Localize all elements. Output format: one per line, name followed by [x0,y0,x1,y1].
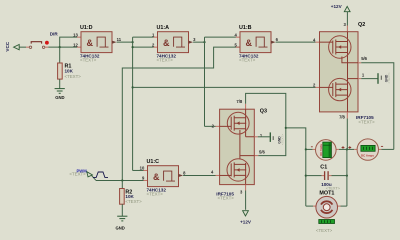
wire to Q3 pin2 [205,125,216,127]
transistor Q3 (IRF7105 dual MOSFET) [211,108,267,200]
wire U1:D out vertical bus [132,37,134,170]
wire U1:A out vertical [204,37,206,126]
svg-text:11: 11 [117,37,122,42]
wire R vertical [346,149,348,206]
ground GND (R1) [55,89,65,101]
wire line A to Q2 pin2 [133,86,316,88]
bottom MOSFET circle [227,159,249,181]
svg-text:+12V: +12V [240,220,252,225]
wire R to motor [338,205,341,207]
internal verticals [246,109,255,137]
wire L to motor [306,205,313,207]
wire voltmeter to node R [336,148,339,150]
capacitor C1 [320,164,340,190]
svg-text:&: & [246,38,253,48]
svg-text:<TEXT>: <TEXT> [125,199,142,204]
node junction R [346,148,348,150]
svg-text:<TEXT>: <TEXT> [157,58,174,63]
wire R1 to ground [59,79,61,88]
svg-text:Q3: Q3 [260,108,267,114]
node +12V terminal (top) [331,4,350,12]
svg-text:&: & [153,172,160,182]
wire Q2 pin1 to terminal [358,78,361,80]
wire to R2 [121,180,123,188]
wire to U1:A pin2 [133,46,154,48]
svg-text:<TEXT>: <TEXT> [280,134,284,145]
node junction C1 left [305,175,307,177]
node junction C1 right [346,175,348,177]
svg-text:7/8: 7/8 [339,114,345,119]
wire to U1:B pin4 [205,36,236,38]
wire C1 left [306,175,322,177]
svg-text:&: & [87,38,94,48]
node junction pin2 [132,46,134,48]
svg-text:<TEXT>: <TEXT> [387,72,391,83]
svg-text:DC Amps: DC Amps [361,153,374,157]
wire U1:A out [193,41,204,43]
svg-text:<TEXT>: <TEXT> [69,172,86,177]
wire L vertical [305,149,307,206]
resistor R2 [120,189,143,205]
op-amp U1:C (NAND 74HC132) [140,159,186,197]
wire Q3 pin1 to terminal [254,136,257,138]
capacitor terminal at Q2 pin1 [378,72,391,84]
top source to 5/6 [342,57,358,63]
wire Q2 7/8 down to node R [346,112,348,119]
svg-text:7/8: 7/8 [236,99,242,104]
wire PWM bus to U1:B pin5 [122,47,240,180]
wire to U1:C pin10 [133,169,144,171]
node VCC terminal [5,41,19,51]
wire Q2 5/6 to right bus [358,62,361,64]
wire node L to voltmeter [306,148,313,150]
switch DIR [29,31,58,48]
svg-text:U1:D: U1:D [80,25,93,31]
svg-text:<TEXT>: <TEXT> [316,228,333,233]
svg-text:12: 12 [73,42,78,47]
node junction R2 [121,179,123,181]
svg-text:<TEXT>: <TEXT> [239,58,256,63]
wire Q3 7/8 riser to motor node [245,104,247,109]
wire C1 right [329,175,332,177]
node junction switch/R1 [59,46,61,48]
svg-text:U1:C: U1:C [147,159,160,165]
pin1 branch [348,78,359,80]
ammeter instrument [348,139,383,160]
svg-text:MOT1: MOT1 [319,191,334,197]
wire branch to node L [286,128,306,149]
svg-text:<TEXT>: <TEXT> [218,196,235,201]
wire R2 to ground [121,204,123,216]
svg-text:DC Volts: DC Volts [319,144,323,156]
wire node R to ammeter [347,148,354,150]
svg-text:10K: 10K [65,68,74,73]
node junction Q3 riser branch [285,127,287,129]
svg-text:<TEXT>: <TEXT> [147,192,164,197]
wire +12V to Q2 pin3 [346,12,348,26]
voltmeter instrument [311,140,345,161]
svg-text:<TEXT>: <TEXT> [80,58,97,63]
svg-text:10: 10 [140,166,145,171]
node PWM input terminal [69,169,108,181]
svg-text:5/6: 5/6 [259,150,265,155]
wire to U1:A pin1 [133,36,154,38]
wire ammeter to right bus [378,148,381,150]
svg-text:DIR: DIR [50,31,59,36]
svg-text:GND: GND [116,225,125,230]
internal vertical [347,32,349,112]
op-amp U1:D (NAND 74HC132) [73,25,122,63]
svg-text:U1:B: U1:B [239,25,252,31]
wire PWM to U1:C pin9 [96,179,144,181]
wire U1:C out to Q3 pin4 [183,174,215,176]
svg-text:U1:A: U1:A [157,25,170,31]
svg-text:VCC: VCC [5,41,10,51]
node junction line A [132,86,134,88]
wire to R1 [59,47,61,63]
node junction L [305,148,307,150]
transistor Q2 (IRF7105 dual MOSFET) [313,22,375,125]
wire Q3 pin3 to +12V [245,185,247,191]
top MOSFET circle [329,36,351,58]
wire U1:D out [117,41,133,43]
node U1:A out junction [203,41,205,43]
top MOSFET circle [227,112,249,134]
svg-text:13: 13 [73,32,78,37]
resistor R1 [58,63,82,79]
svg-text:GND: GND [55,95,64,100]
svg-text:&: & [163,38,170,48]
motor MOT1 [316,191,338,234]
node U1:D out junction [132,41,134,43]
svg-text:5/6: 5/6 [361,56,367,61]
svg-text:Q2: Q2 [358,22,365,28]
wire switch to U1:D pin12 [45,46,49,48]
wire VCC to switch [19,46,26,48]
node +12V terminal (bottom) [240,211,252,225]
op-amp U1:B (NAND 74HC132) [234,25,278,63]
capacitor terminal at Q3 pin1 [270,132,284,145]
svg-text:<TEXT>: <TEXT> [358,120,375,125]
ground GND (R2) [116,216,128,230]
svg-text:<TEXT>: <TEXT> [65,74,82,79]
op-amp U1:A (NAND 74HC132) [152,25,196,63]
wire riser to pin13 [60,37,77,47]
wire U1:B out to Q2 pin4 [276,41,316,43]
svg-text:C1: C1 [320,164,327,170]
bottom MOSFET circle [329,78,351,100]
svg-text:+12V: +12V [331,4,343,9]
